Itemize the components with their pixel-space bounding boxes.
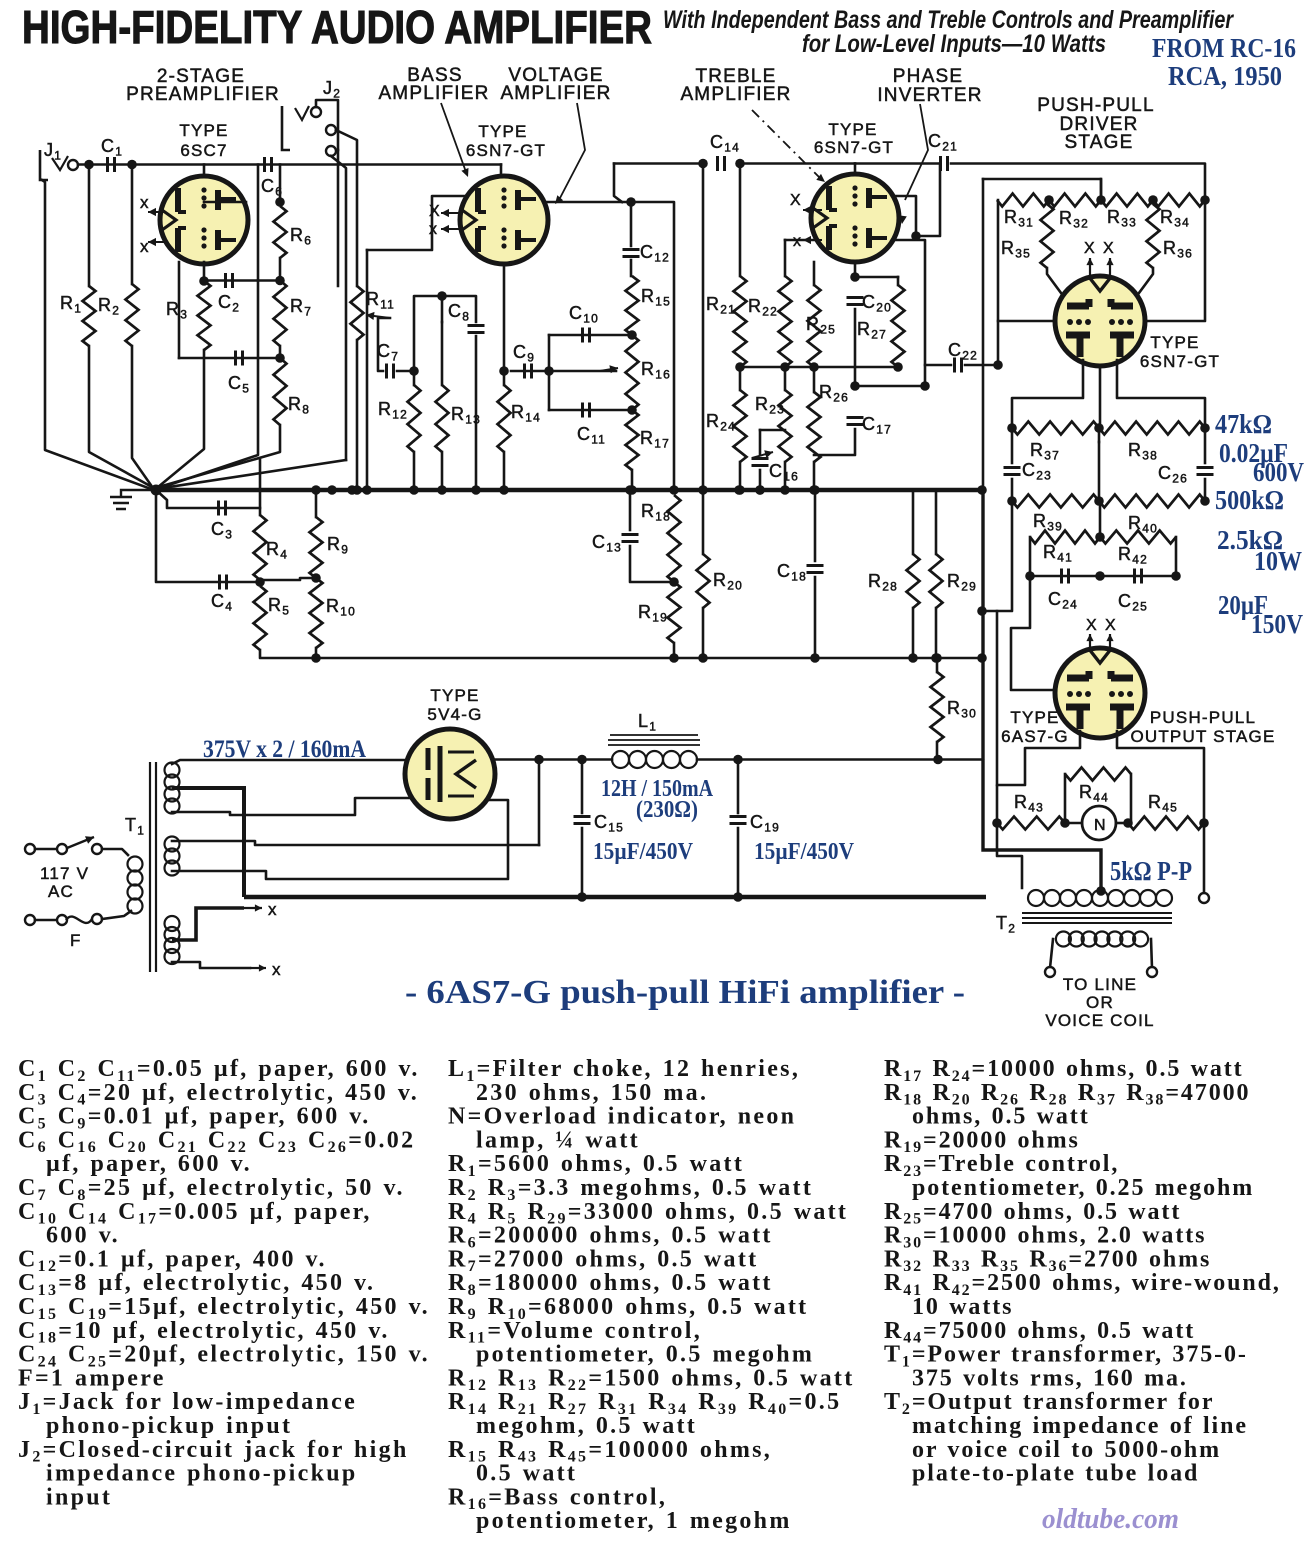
junction R14/bus [499,485,509,495]
junction R15/R16 [627,330,637,340]
wire C20 node right [855,385,925,388]
svg-text:x: x [140,193,150,212]
capacitor C20 [847,298,864,305]
wire mains N [35,919,57,922]
heater arrow output a [1086,634,1093,652]
wire R24 bottom [739,462,742,490]
wire plate to T2 left [997,823,1022,888]
wire J2 sleeve down [331,156,346,460]
wire plate to C21 [916,164,940,237]
junction C8/bus [471,485,481,495]
T1 heater winding [165,916,180,964]
wire R35 to grid [1047,268,1064,297]
wire R12 node up to C8 [414,296,442,371]
svg-text:TYPE: TYPE [828,120,877,139]
choke L1 winding [612,751,697,768]
svg-text:AMPLIFIER: AMPLIFIER [500,83,611,104]
R23 wiper arrow [752,450,773,458]
tube V1 6SC7 preamplifier [160,176,248,264]
resistor R30 [931,672,944,742]
wire R11 wiper to C7 [378,318,390,371]
capacitor C15 [574,817,591,824]
wire R14 top stub [503,371,506,385]
wire T2 secondary right lead [1151,939,1152,968]
wire output plate right [1117,731,1204,823]
junction R3 top / C2 [199,276,209,286]
wire to C8 [442,296,476,322]
resistor R4 [254,515,267,580]
junction C12 top [626,197,636,207]
wire C10/C11 bracket [548,335,551,410]
junction R24/bus [735,485,745,495]
wire C16 top [759,430,762,455]
resistor R34 [1153,194,1205,207]
junction [911,231,921,241]
wire R28 bottom [912,608,915,658]
T1 primary winding [128,857,143,914]
junction R13/bus [437,485,447,495]
wire C6 left plate down [257,165,260,281]
junction R17/bus [627,485,637,495]
resistor R8 [274,358,287,425]
terminal voice coil right [1147,967,1157,977]
resistor R23 treble control [779,390,792,462]
wire R1 bottom to ground star [89,346,152,487]
junction C19/ground rail [733,892,743,902]
jack J2 tip terminal [311,107,321,117]
wire bus to C18 [814,490,817,561]
heater x arrow 2 [250,964,266,971]
resistor R37 [1012,422,1099,435]
junction R37/R38 [1094,423,1104,433]
svg-text:x: x [268,900,278,919]
junction cathode/C20 [850,272,860,282]
tube V6 5V4-G rectifier [405,729,495,819]
resistor R7 [274,281,287,347]
capacitor C13 [622,535,639,542]
junction C9 left [499,366,509,376]
leader treble amplifier [752,110,820,178]
svg-text:5kΩ P-P: 5kΩ P-P [1110,856,1192,886]
resistor R41 [1030,531,1100,544]
ground star node [151,485,162,496]
wire J2 contact down [336,130,357,286]
junction C13/bus [625,485,635,495]
resistor R36 [1147,204,1160,268]
wire R41 left down [1029,537,1032,576]
svg-text:HIGH-FIDELITY AUDIO AMPLIFIE: HIGH-FIDELITY AUDIO AMPLIFIER [22,1,652,53]
resistor R26 [808,392,821,462]
capacitor C4 [220,575,227,590]
wire 6SC7 plate to R6 [204,201,246,204]
junction R45 right [1199,818,1209,828]
parts list column 1 (capacitors) [18,1056,430,1510]
svg-text:47kΩ: 47kΩ [1215,409,1272,439]
wire C14 left branch down to bus [702,164,705,491]
resistor R39 [1012,495,1099,508]
capacitor C11 [583,403,590,418]
svg-text:PUSH-PULL: PUSH-PULL [1150,708,1256,727]
svg-text:RCA, 1950: RCA, 1950 [1168,61,1282,91]
junction R43 left [992,818,1002,828]
svg-text:10W: 10W [1254,546,1302,576]
wire C14 to treble grid [740,162,855,165]
junction bias node [977,606,987,616]
svg-text:500kΩ: 500kΩ [1215,485,1284,515]
wire R30 bottom [936,742,939,760]
wire C18 bottom [814,577,817,658]
wire B+ to C15 [539,758,582,761]
T1 HV secondary top [165,763,180,814]
junction R9/R10 [311,573,321,583]
svg-text:AMPLIFIER: AMPLIFIER [378,83,489,104]
wire R11 bottom to bus [356,340,359,490]
switch blade arrow [67,836,94,848]
resistor R24 [734,390,747,462]
svg-text:F=1 ampere: F=1 ampere [18,1365,166,1391]
junction [347,485,357,495]
resistor R2 [126,284,139,346]
svg-text:N: N [1094,817,1107,834]
wire R14 bottom [503,452,506,490]
svg-text:ohms, 0.5 watt: ohms, 0.5 watt [912,1104,1090,1130]
svg-text:potentiometer, 0.25 megohm: potentiometer, 0.25 megohm [912,1175,1254,1201]
junction [920,381,930,391]
svg-text:TYPE: TYPE [1150,333,1199,352]
heater arrow V3a [803,206,822,214]
wire J1 sleeve to ground star [42,180,151,489]
heater x arrow 1 [244,904,262,911]
wire R21-R25 rail [740,366,814,369]
wire C20 bottom [854,309,857,386]
resistor R11 volume control [351,286,364,340]
junction C14 left [698,159,708,169]
junction R34 end [1200,195,1210,205]
junction C8 top [437,291,447,301]
wire mains L [35,848,57,851]
resistor R25 [808,285,821,367]
wire C8 top [441,296,444,322]
wire R12 top stub [413,371,416,385]
junction C5/R8 [275,353,285,363]
svg-text:X: X [1086,617,1098,634]
wire R29 bottom [935,608,938,658]
svg-text:15µF/450V: 15µF/450V [593,839,694,865]
svg-text:X: X [1103,240,1115,257]
wire C12 top [630,202,633,246]
junction R32/R33 [1096,195,1106,205]
junction [327,485,337,495]
wire R4/R5 to R9/R10 [260,578,316,580]
capacitor C23 [1004,468,1021,475]
junction [698,485,708,495]
wire C24 [1030,575,1100,578]
capacitor C3 [219,501,226,516]
svg-text:TYPE: TYPE [478,122,527,141]
wire C16 bottom [759,470,762,490]
resistor R44 [1065,768,1131,781]
terminal switch pole [57,844,67,854]
wire input top (J1 to bass grid) [78,163,501,166]
wire centre feed stub [1100,179,1103,200]
tube V5 6AS7-G push-pull output [1055,648,1145,738]
svg-text:x: x [429,221,438,238]
resistor R10 [310,578,323,648]
svg-text:lamp, ¼ watt: lamp, ¼ watt [476,1127,640,1153]
junction R1 top [84,160,94,170]
wire C12 bottom [630,260,633,276]
junction [362,485,372,495]
junction R10/lower rail [311,653,321,663]
wire R5 bottom [260,650,316,658]
wire fuse to T1 primary [102,911,131,919]
svg-text:6SC7: 6SC7 [180,141,227,160]
ground symbol [110,490,156,509]
terminal fuse left [57,915,67,925]
wire from cathode rail to R4 [259,460,262,515]
svg-text:TYPE: TYPE [1010,708,1059,727]
parts list column 2 (L, N, resistors) [448,1056,855,1534]
wire R39/R40 to R41/R42 [1099,501,1102,537]
wire R2 top [131,165,134,285]
junction R28/rail [908,653,918,663]
wire R37/R38 to R39/R40 [1098,442,1101,501]
junction R2 top [127,160,137,170]
wire bus to R28 [912,490,915,554]
svg-text:600 v.: 600 v. [46,1223,120,1249]
transformer T2 core [1022,913,1172,923]
junction R31/R32 [1044,195,1054,205]
T2 secondary winding [1056,932,1148,947]
junction R30/lower rail [932,653,942,663]
R16 wiper arrow [600,365,618,373]
wire R22-R23 [784,367,787,390]
capacitor C8 [468,326,485,333]
wire C8 bottom to bus [475,336,478,490]
svg-text:TYPE: TYPE [430,686,479,705]
svg-text:150V: 150V [1251,609,1303,639]
tube V4 6SN7-GT push-pull driver [1055,276,1145,366]
wire plate to T2 right [1203,823,1206,898]
svg-text:PHASE: PHASE [893,66,963,87]
wire bus to R29 [935,490,938,554]
jack J2 break contact [326,125,336,135]
wire R30 top [936,658,939,672]
resistor R32 [1049,194,1101,207]
wire J2 tip down to R11 [337,150,340,286]
svg-text:plate-to-plate tube load: plate-to-plate tube load [912,1461,1199,1487]
tube V3 6SN7-GT treble amplifier / phase inverter [811,174,899,262]
capacitor C10 [583,328,590,343]
svg-text:matching impedance of line: matching impedance of line [912,1413,1248,1439]
heater arrow V3b [803,236,822,244]
heater arrow driver a [1086,258,1093,276]
neon lamp N [1082,806,1116,840]
svg-text:117 V: 117 V [40,864,89,883]
svg-text:(230Ω): (230Ω) [636,797,698,823]
capacitor C17 [847,418,864,425]
wire C17 bottom [814,429,855,455]
wire C19 top lead [737,760,740,814]
resistor R14 [498,385,511,452]
wire top jog [614,164,622,203]
wire C13 top [629,490,632,530]
resistor R1 [83,286,96,346]
T1 rectifier filament winding [165,837,180,876]
wire HV top to 5V4 plate [172,760,407,764]
terminal T2 right [1199,893,1209,903]
wire R44 right leg [1130,774,1133,823]
junction R38 right [1200,423,1210,433]
svg-text:phono-pickup input: phono-pickup input [46,1413,292,1439]
svg-text:for Low-Level Inputs—10 Watts: for Low-Level Inputs—10 Watts [802,30,1106,58]
resistor R35 [1041,204,1054,268]
terminal voice coil left [1045,967,1055,977]
wire C13 bottom [630,546,674,582]
wire heater centre tap [172,908,244,940]
resistor R38 [1099,422,1205,435]
junction R12 top [409,366,419,376]
wire R25-R27 rail [814,366,898,369]
terminal mains N [25,915,35,925]
capacitor C24 [1062,569,1069,584]
jack J1 tip terminal [68,160,78,170]
wire bass heater return [366,250,369,490]
resistor R20 [697,554,710,608]
wire 5V filament 2 [172,800,508,879]
wire bass cathode down [503,264,506,371]
junction N/R45 [1123,818,1133,828]
wire R25 top [813,262,816,285]
resistor R28 [907,554,920,608]
capacitor C22 [955,358,962,373]
junction [755,485,765,495]
junction R9/bus [311,485,321,495]
wire driver grid-leak down to bus [982,179,985,490]
wire R42 right down [1175,537,1178,576]
wire driver cathode right [1117,360,1205,428]
junction T2 centre tap [1096,886,1106,896]
jack J2 [282,106,309,150]
wire bass grid2 bracket [367,196,466,250]
junction R20/rail [698,653,708,663]
heater arrow driver b [1106,258,1113,276]
wire HV centre tap (heavy) [172,788,244,897]
junction R39 left [1007,496,1017,506]
resistor R12 [408,385,421,452]
wire switch to T1 primary [102,849,128,855]
wire R36 to grid [1136,268,1153,297]
svg-text:230 ohms, 150 ma.: 230 ohms, 150 ma. [476,1080,708,1106]
capacitor C18 [807,566,824,573]
junction R21/R24 [735,362,745,372]
resistor R40 [1099,495,1205,508]
junction R16/R17 [627,405,637,415]
wire C7 to R12 [397,370,414,373]
wire lower B+ rail [316,657,982,660]
capacitor C12 [623,250,640,257]
wire C22 to driver grid node [965,364,998,367]
junction C24 left [1025,571,1035,581]
terminal mains L [25,844,35,854]
svg-text:input: input [46,1484,112,1510]
parts list column 3 (resistors, transformers) [884,1056,1281,1487]
junction R23/bus [780,485,790,495]
wire star to C4 rail [156,490,259,582]
resistor R15 [626,276,639,335]
wire R1 top [88,165,91,287]
junction R12/bus [409,485,419,495]
svg-text:impedance phono-pickup: impedance phono-pickup [46,1461,358,1487]
junction C18/bus [810,485,820,495]
heater arrow V1a [148,208,166,216]
svg-text:potentiometer, 0.5 megohm: potentiometer, 0.5 megohm [476,1342,814,1368]
resistor R6 [274,206,287,258]
wire ground bus [156,488,982,493]
svg-text:375V x 2 / 160mA: 375V x 2 / 160mA [203,736,366,763]
svg-text:STAGE: STAGE [1065,132,1134,153]
junction R33/R34 [1148,195,1158,205]
capacitor C9 [525,364,532,379]
junction R40 right [1200,496,1210,506]
wire heater lower [172,962,250,968]
wire treble plate 1 [893,196,916,236]
wire R7 bottom [279,346,282,358]
wire treble grid return [785,239,818,242]
wire R26 top [813,367,816,392]
wire R34 to driver right plate [1146,200,1205,321]
svg-text:x: x [140,237,150,256]
svg-text:X: X [1105,617,1117,634]
wire R20 bottom [702,608,705,658]
wire R6 top to C6 [279,165,282,203]
jack J2 sleeve terminal [326,146,336,156]
wire to C21 [855,162,940,165]
wire treble plate 2 down [893,240,925,386]
wire bass plate to C12 node [546,201,631,204]
junction bus end [977,485,987,495]
svg-text:potentiometer, 1 megohm: potentiometer, 1 megohm [476,1508,792,1534]
svg-text:6SN7-GT: 6SN7-GT [466,141,546,160]
wire C23 top [1011,428,1014,463]
resistor R22 [779,276,792,367]
leader phase inverter [905,104,928,200]
junction [534,755,544,765]
svg-text:AC: AC [48,882,74,901]
wire R39 left down to branch [982,501,1012,611]
wire C10 top [549,334,632,337]
capacitor C26 [1197,468,1214,475]
wire output plate left [997,731,1080,823]
svg-text:OR: OR [1086,993,1114,1012]
junction C18/rail [810,653,820,663]
capacitor C1 [108,157,115,172]
junction [669,485,679,495]
wire B+ after choke [697,758,983,761]
svg-text:0.5 watt: 0.5 watt [476,1461,577,1487]
wire R13 top [441,322,444,385]
heater arrow V2b [441,225,460,233]
wire cathode node down [1098,428,1101,442]
junction C15 top [577,755,587,765]
wire C21 to R34 end [951,164,1205,201]
junction R39/R40 [1094,496,1104,506]
wire C15 bottom lead [581,828,584,897]
wire N left [1065,822,1082,825]
wire R44 left leg [1064,774,1067,823]
wire R31 left to grid node [997,200,1000,365]
svg-text:oldtube.com: oldtube.com [1042,1504,1179,1535]
